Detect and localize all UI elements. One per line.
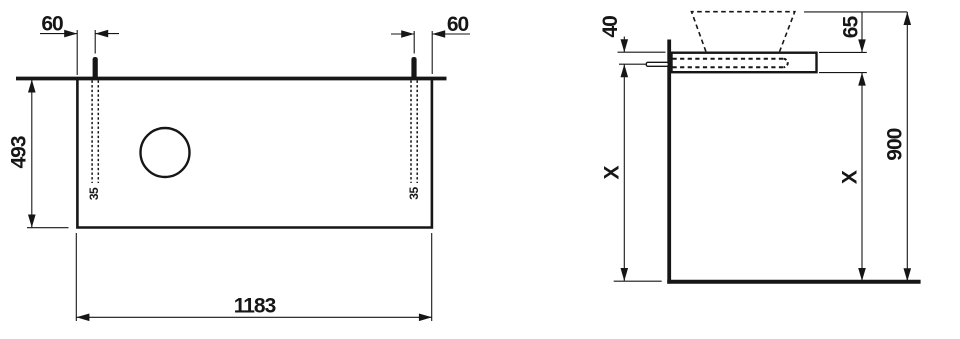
svg-text:35: 35	[407, 187, 421, 200]
svg-text:1183: 1183	[234, 295, 276, 318]
svg-text:60: 60	[41, 13, 63, 36]
svg-text:60: 60	[447, 13, 469, 36]
svg-text:493: 493	[7, 136, 30, 168]
svg-text:900: 900	[884, 128, 907, 160]
svg-text:35: 35	[87, 187, 101, 200]
svg-text:65: 65	[839, 16, 862, 39]
svg-text:X: X	[601, 166, 624, 180]
svg-text:X: X	[838, 170, 861, 184]
svg-text:40: 40	[599, 16, 622, 38]
